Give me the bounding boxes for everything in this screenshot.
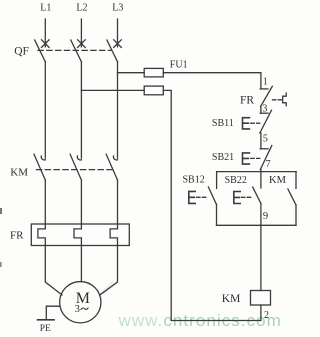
wire L2 QF to KM (80, 62, 82, 158)
button SB11 seat (260, 112, 268, 114)
wire L1 QF to KM (44, 62, 46, 158)
svg-text:L3: L3 (112, 3, 123, 14)
relay contact FR seat (260, 88, 268, 90)
wire FR to motor L2 (80, 246, 82, 282)
wire fuse1 to control rail (163, 72, 261, 74)
svg-text:3: 3 (75, 304, 80, 315)
svg-text:FU1: FU1 (170, 60, 188, 71)
FR heater element 1 (38, 224, 45, 246)
svg-text:KM: KM (10, 167, 28, 179)
SB11 dashed link (251, 122, 260, 124)
contactor KM pole 3 hook (113, 156, 117, 160)
thermal relay FR box (31, 224, 129, 246)
SB12 dashed link (197, 196, 207, 198)
svg-text:FR: FR (10, 229, 24, 241)
wire node3-5 (260, 133, 262, 149)
FR trip dashed link (273, 99, 283, 101)
edge smudge 1 (0, 208, 2, 214)
button SB21 blade (260, 146, 272, 170)
breaker QF pole 1 X contact (42, 40, 50, 48)
svg-text:SB12: SB12 (183, 175, 205, 186)
svg-text:QF: QF (14, 46, 29, 58)
wire L3 QF to KM (117, 62, 119, 158)
control bottom wire (171, 320, 261, 322)
wire coil to bottom (260, 305, 262, 321)
FR heater element 3 (110, 224, 117, 246)
button SB21 seat (260, 148, 268, 150)
button SB12 blade (208, 187, 216, 205)
relay contact FR blade (261, 86, 273, 106)
svg-text:L2: L2 (76, 3, 87, 14)
parallel top bus (217, 171, 297, 173)
button SB21 actuator E (243, 153, 250, 164)
parallel bottom bus (217, 224, 297, 226)
tap to FU1 upper from L3 (118, 72, 145, 74)
contactor KM pole 1 blade (34, 154, 45, 180)
breaker QF linkage dashed (38, 49, 112, 51)
contact KM aux top stub (295, 172, 297, 189)
wire FR to motor L3 (100, 246, 118, 296)
PE wire (46, 306, 60, 320)
button SB22 actuator E (234, 192, 240, 204)
wire fuse2 out and left control rail (163, 90, 171, 320)
contact KM aux bottom stub (295, 205, 297, 225)
wire node9 to coil (260, 225, 262, 290)
contactor KM pole 3 blade (106, 154, 117, 180)
wire node7 down (260, 170, 262, 189)
wire L1 KM to FR (44, 180, 46, 224)
wire L3 KM to FR (117, 180, 119, 224)
button SB12 top stub (216, 172, 218, 189)
svg-text:7: 7 (266, 159, 271, 170)
svg-text:KM: KM (269, 175, 287, 186)
button SB12 bottom stub (216, 205, 218, 226)
wire L1 drop to QF (44, 19, 46, 47)
motor M circle (60, 282, 101, 323)
wire L2 drop to QF (80, 19, 82, 47)
motor tilde (81, 308, 88, 309)
breaker QF pole 2 X contact (78, 40, 86, 48)
svg-text:FR: FR (240, 95, 254, 107)
tap to FU1 lower from L2 (81, 89, 144, 91)
FR heater element 2 (74, 224, 81, 246)
svg-text:1: 1 (263, 77, 268, 88)
ground bar (38, 319, 54, 321)
wire node1-3 (260, 107, 262, 114)
contactor KM pole 2 hook (77, 156, 81, 160)
breaker QF pole 3 blade (107, 40, 118, 62)
breaker QF pole 1 blade (35, 40, 46, 62)
button SB11 blade (260, 110, 272, 133)
fuse FU1 upper (144, 68, 163, 77)
svg-text:PE: PE (40, 324, 51, 334)
button SB22 blade (253, 187, 261, 204)
wire L3 drop to QF (117, 19, 119, 47)
svg-text:SB21: SB21 (212, 152, 234, 163)
FR trip actuator (283, 93, 287, 106)
coil KM box (251, 291, 271, 306)
contactor KM pole 2 blade (70, 154, 81, 180)
svg-text:KM: KM (222, 293, 241, 305)
contactor KM linkage dashed (37, 169, 113, 171)
edge smudge 2 (0, 262, 2, 267)
breaker QF pole 3 X contact (114, 40, 122, 48)
wire FR to motor L1 (45, 246, 62, 296)
svg-text:SB22: SB22 (225, 175, 247, 186)
SB22 dashed link (241, 196, 251, 198)
button SB12 actuator E (189, 191, 195, 203)
svg-text:9: 9 (263, 211, 268, 222)
fuse FU1 lower (144, 86, 163, 95)
contactor KM pole 1 hook (41, 156, 45, 160)
wire L2 KM to FR (80, 180, 82, 224)
SB21 dashed link (251, 157, 260, 159)
control rail top (260, 73, 262, 89)
svg-text:2: 2 (264, 310, 269, 321)
svg-text:5: 5 (263, 133, 268, 144)
contact KM aux blade (288, 189, 296, 205)
button SB11 actuator E (243, 118, 250, 129)
button SB22 bottom wire (260, 204, 262, 226)
svg-text:SB11: SB11 (212, 118, 234, 129)
breaker QF pole 2 blade (71, 40, 82, 62)
svg-text:L1: L1 (40, 3, 51, 14)
